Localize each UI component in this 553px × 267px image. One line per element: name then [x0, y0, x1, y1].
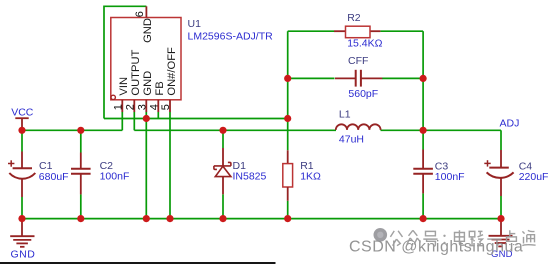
node C3 top [420, 127, 427, 134]
wire pin1 [121, 112, 123, 131]
node gnd C3 [420, 215, 427, 222]
node gnd C4 [497, 215, 504, 222]
hanzi gong [390, 231, 402, 246]
wire pin4 [157, 112, 159, 119]
svg-text:ADJ: ADJ [500, 117, 520, 129]
wire C1 lower [21, 197, 23, 219]
svg-text:100nF: 100nF [100, 171, 130, 183]
svg-text:ON#/OFF: ON#/OFF [166, 47, 178, 96]
wire right vertical upper [422, 31, 424, 130]
wire C1 upper [21, 130, 23, 151]
capacitor C3 [422, 150, 424, 169]
wire CFF row left [288, 77, 335, 79]
svg-text:L1: L1 [339, 109, 351, 121]
hanzi lu [469, 231, 483, 245]
hanzi hao [423, 231, 437, 246]
svg-text:47uH: 47uH [339, 133, 364, 145]
hanzi dian [455, 230, 465, 245]
node gnd pin3 [143, 215, 150, 222]
pin 1 stub [121, 100, 123, 112]
wire C2 lower [80, 194, 82, 218]
svg-text:100nF: 100nF [435, 171, 465, 183]
svg-text:GND: GND [142, 71, 154, 96]
pin1 marker circle [111, 95, 115, 99]
wire pin6 loop top [104, 6, 146, 118]
capacitor CFF [335, 77, 356, 79]
fullwidth colon [443, 236, 445, 243]
wire input rail [22, 129, 122, 131]
inductor L1 [336, 124, 381, 130]
svg-text:3: 3 [136, 104, 148, 110]
pin 3 stub [145, 100, 147, 112]
node VCC rail / C1 [18, 127, 25, 134]
svg-text:220uF: 220uF [519, 171, 549, 183]
watermark logo disc [374, 228, 388, 242]
capacitor C4 polarized [500, 150, 502, 167]
hanzi dianr [505, 230, 517, 245]
ground symbol left [21, 219, 23, 236]
svg-text:CFF: CFF [348, 55, 368, 67]
node gnd C1 [18, 215, 25, 222]
svg-text:1KΩ: 1KΩ [300, 170, 321, 182]
resistor R1 [287, 150, 289, 163]
wire output rail right [381, 129, 502, 131]
node CFF left [284, 75, 291, 82]
node FB wire right end [284, 115, 291, 122]
node D1 top [219, 127, 226, 134]
node gnd R1 [284, 215, 291, 222]
watermark chinese overlay [390, 230, 535, 246]
wire C3 lower [422, 193, 424, 218]
svg-text:680uF: 680uF [39, 171, 69, 183]
wire output rail left [134, 129, 336, 131]
node gnd C2 [77, 215, 84, 222]
wire FB vertical [287, 31, 289, 150]
svg-text:IN5825: IN5825 [233, 171, 267, 183]
wire pin3 [145, 112, 147, 219]
node gnd pin5 [166, 215, 173, 222]
svg-text:6: 6 [134, 11, 146, 17]
power port VCC stem [21, 118, 23, 130]
capacitor C1 polarized [21, 152, 23, 169]
wire R1 lower [287, 201, 289, 219]
ground symbol right [500, 219, 502, 236]
wire ground rail [22, 218, 501, 220]
wire C2 upper [80, 130, 82, 152]
pin 4 stub [157, 100, 159, 112]
wire D1 lower [222, 194, 224, 218]
wire R2 row right [380, 30, 423, 32]
power port VCC bar [15, 117, 28, 119]
svg-text:OUTPUT: OUTPUT [130, 49, 142, 95]
svg-text:R2: R2 [347, 12, 361, 24]
svg-text:5: 5 [160, 104, 172, 110]
hanzi tong [522, 230, 535, 245]
wire CFF row right [382, 77, 423, 79]
wire C4 lower [500, 196, 502, 219]
svg-text:CSDN @knightsinghua: CSDN @knightsinghua [349, 239, 523, 256]
wire C3 upper [422, 130, 424, 149]
node C2 top [77, 127, 84, 134]
svg-text:560pF: 560pF [348, 88, 378, 100]
plus sign C1 [8, 163, 14, 165]
pin 5 stub [169, 100, 171, 112]
wire FB net horizontal [104, 118, 288, 120]
plus sign C4 [484, 162, 490, 164]
bottom border line [0, 262, 276, 264]
diode D1 schottky [222, 148, 224, 166]
pin 2 stub [133, 100, 135, 112]
capacitor C2 [80, 153, 82, 169]
node gnd D1 [219, 215, 226, 222]
wire pin2 [133, 112, 135, 131]
pin 6 stub [145, 6, 147, 17]
wire ADJ corner / C4 upper [500, 130, 502, 150]
svg-text:GND: GND [11, 249, 36, 261]
svg-text:FB: FB [154, 81, 166, 95]
wire R2 row left [288, 30, 334, 32]
svg-text:1: 1 [112, 104, 124, 110]
svg-text:2: 2 [124, 104, 136, 110]
svg-text:VCC: VCC [11, 107, 34, 119]
svg-text:LM2596S-ADJ/TR: LM2596S-ADJ/TR [188, 31, 274, 43]
svg-text:4: 4 [148, 104, 160, 110]
wire pin5 [169, 112, 171, 219]
svg-text:U1: U1 [188, 18, 202, 30]
hanzi yi [487, 238, 501, 240]
node FB wire / pin3 [143, 115, 150, 122]
svg-text:15.4KΩ: 15.4KΩ [347, 38, 382, 50]
resistor R2 body [334, 30, 346, 32]
node CFF right [420, 75, 427, 82]
hanzi zhong [407, 230, 421, 244]
svg-text:GND: GND [142, 18, 154, 43]
IC U1 LM2596S-ADJ/TR body [111, 18, 181, 100]
wire D1 upper [222, 130, 224, 148]
svg-text:VIN: VIN [118, 77, 130, 96]
